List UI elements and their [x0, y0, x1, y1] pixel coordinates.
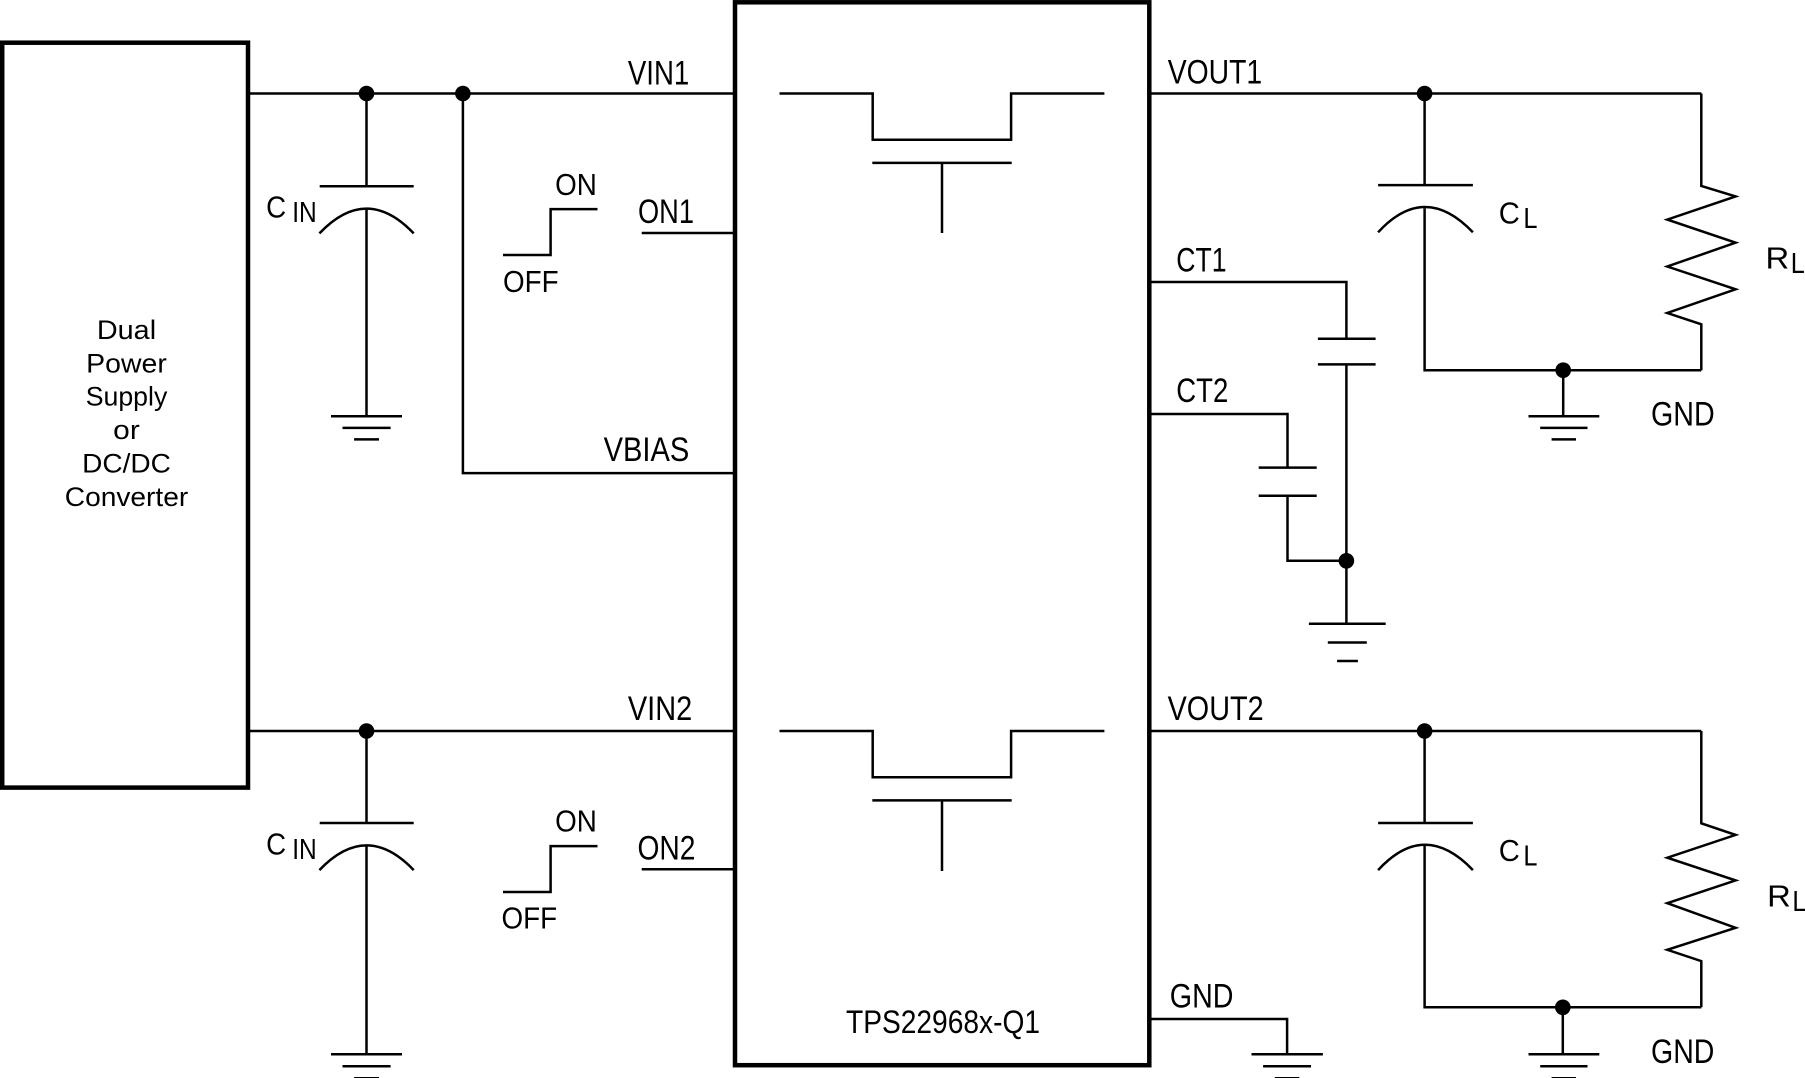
- svg-text:CT2: CT2: [1176, 372, 1228, 410]
- svg-text:OFF: OFF: [502, 901, 558, 936]
- svg-text:OFF: OFF: [503, 264, 559, 299]
- svg-text:IN: IN: [292, 197, 317, 229]
- svg-text:ON2: ON2: [638, 830, 696, 868]
- svg-text:DC/DC: DC/DC: [82, 449, 171, 479]
- svg-text:L: L: [1523, 203, 1537, 235]
- svg-text:VOUT1: VOUT1: [1168, 54, 1263, 92]
- svg-text:CT1: CT1: [1176, 242, 1226, 280]
- svg-text:IN: IN: [292, 834, 317, 866]
- svg-text:VBIAS: VBIAS: [604, 431, 690, 469]
- svg-text:R: R: [1766, 241, 1790, 276]
- svg-text:or: or: [113, 415, 140, 445]
- svg-text:Dual: Dual: [97, 315, 156, 345]
- svg-text:GND: GND: [1651, 1033, 1714, 1071]
- svg-text:VIN2: VIN2: [628, 690, 692, 728]
- svg-text:GND: GND: [1651, 396, 1715, 434]
- svg-text:ON: ON: [555, 167, 597, 202]
- svg-text:TPS22968x-Q1: TPS22968x-Q1: [846, 1004, 1040, 1040]
- svg-text:C: C: [1499, 833, 1520, 868]
- svg-text:VOUT2: VOUT2: [1168, 690, 1264, 728]
- svg-text:R: R: [1767, 879, 1791, 914]
- svg-text:ON: ON: [555, 804, 597, 839]
- svg-text:Converter: Converter: [65, 482, 189, 512]
- svg-text:L: L: [1791, 248, 1805, 280]
- svg-text:C: C: [266, 190, 286, 225]
- svg-text:L: L: [1523, 841, 1537, 873]
- svg-text:Power: Power: [86, 348, 167, 378]
- svg-text:Supply: Supply: [86, 382, 168, 412]
- svg-text:GND: GND: [1170, 977, 1234, 1015]
- svg-text:C: C: [1499, 196, 1520, 231]
- svg-text:L: L: [1792, 886, 1805, 918]
- svg-text:VIN1: VIN1: [628, 54, 689, 92]
- svg-text:C: C: [266, 826, 286, 861]
- svg-text:ON1: ON1: [638, 193, 694, 231]
